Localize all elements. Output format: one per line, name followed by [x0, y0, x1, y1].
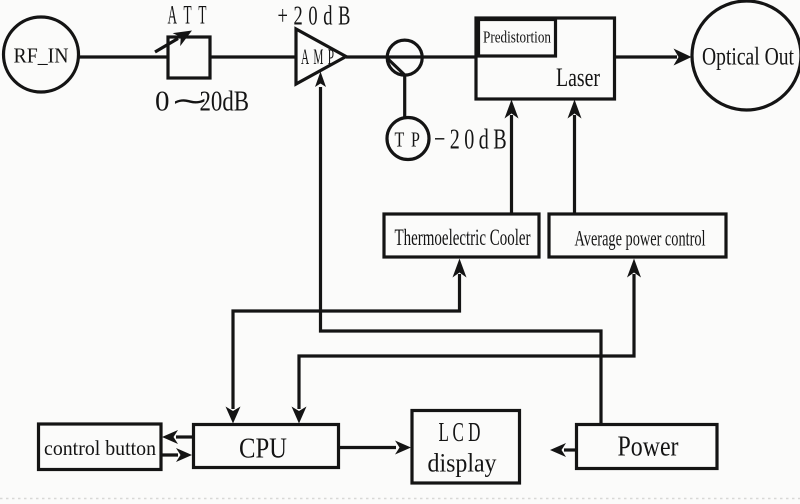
- control button box: [39, 424, 162, 470]
- CPU box: [194, 425, 339, 468]
- svg-text:Predistortion: Predistortion: [483, 28, 551, 47]
- optical output port circle: [692, 1, 800, 110]
- wire power supply arrow left: [550, 443, 576, 457]
- svg-text:20dB: 20dB: [200, 86, 250, 118]
- RF input port circle RF_IN: [4, 17, 79, 92]
- wire CPU to LCD display with arrow: [339, 441, 412, 455]
- svg-text:T P: T P: [395, 128, 422, 152]
- svg-text:0: 0: [155, 86, 170, 118]
- wire power to amplifier with arrow: [315, 72, 601, 425]
- svg-text:display: display: [428, 449, 497, 478]
- svg-text:Thermoelectric Cooler: Thermoelectric Cooler: [395, 225, 531, 250]
- wire amplifier to laser: [346, 55, 477, 58]
- laser box: [476, 18, 615, 99]
- wire average power control to laser with arrow: [568, 100, 582, 215]
- svg-text:− 2 0 d B: − 2 0 d B: [434, 124, 508, 156]
- average power control box: [549, 214, 726, 257]
- power box: [577, 425, 718, 469]
- svg-text:+ 2 0 d B: + 2 0 d B: [278, 1, 353, 31]
- thermoelectric cooler box: [384, 214, 539, 257]
- svg-text:Power: Power: [618, 432, 680, 463]
- svg-text:control button: control button: [44, 436, 156, 460]
- wire RF_IN to attenuator: [79, 55, 168, 58]
- svg-text:RF_IN: RF_IN: [14, 44, 69, 68]
- svg-text:Average power control: Average power control: [575, 226, 706, 251]
- attenuator ATT box: [168, 37, 210, 78]
- wire CPU to control button arrow left: [162, 430, 192, 444]
- test point TP circle: [387, 118, 429, 160]
- wire laser to optical out with arrow: [615, 49, 692, 66]
- svg-text:CPU: CPU: [239, 434, 287, 465]
- svg-text:Optical Out: Optical Out: [702, 44, 794, 71]
- svg-text:L C D: L C D: [439, 417, 481, 447]
- svg-text:A M P: A M P: [301, 44, 335, 69]
- svg-text:Laser: Laser: [556, 63, 600, 92]
- coupler tap circle: [387, 40, 422, 75]
- wire CPU to thermoelectric cooler (double arrow): [226, 259, 467, 424]
- wire thermoelectric cooler to laser with arrow: [505, 100, 519, 215]
- wire attenuator to amplifier: [210, 55, 296, 58]
- svg-text:A T T: A T T: [168, 1, 209, 30]
- attenuator variable arrow: [155, 31, 192, 53]
- wire coupler to test point: [403, 75, 406, 119]
- label 0~20dB: [155, 85, 249, 117]
- wire control button to CPU arrow right: [161, 448, 192, 462]
- predistortion box: [479, 20, 556, 57]
- LCD display box: [412, 411, 520, 484]
- wire CPU to average power control (double arrow): [292, 259, 642, 424]
- amplifier AMP triangle: [296, 29, 346, 84]
- watermark dotted line: [0, 498, 800, 500]
